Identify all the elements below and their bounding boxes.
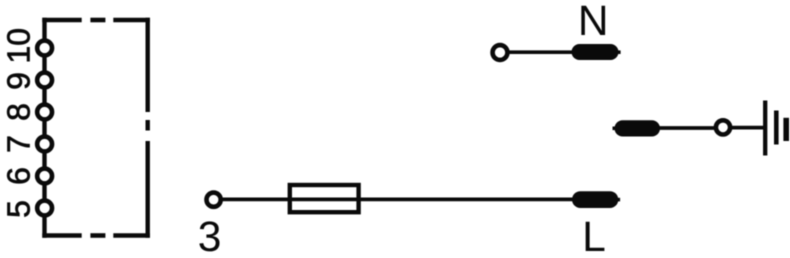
pin number 7 [7,137,29,152]
wire terminal to earth symbol [728,126,765,130]
pin number 6 [7,169,30,184]
wire earth tab to terminal [656,126,718,130]
wire neutral row [503,50,575,54]
earth ground symbol [765,101,786,156]
label 3 [199,221,219,251]
pin number 10 [7,29,30,61]
faston tab N [572,44,621,60]
connector J1 outline right edge (dash-dot) [145,18,149,238]
terminal circle on earth wire [716,120,730,134]
terminal circle on neutral wire [493,45,508,60]
label N [581,6,605,35]
pin number 9 [7,74,30,89]
wire line row from terminal 3 through fuse to L [216,198,575,202]
pin 7 terminal circle [37,137,52,152]
pin 6 terminal circle [37,169,52,184]
pin 9 terminal circle [37,73,52,88]
faston tab L [572,191,620,208]
connector J1 left edge (solid line) [42,18,46,238]
fuse F1 [290,185,359,212]
connector J1 outline bottom edge (dash-dot) [42,233,150,238]
faston tab to earth [613,120,661,136]
pin 8 terminal circle [37,105,52,120]
pin number 5 [7,201,29,216]
pin 10 terminal circle [37,41,52,56]
pin 5 terminal circle [37,201,52,216]
pin number 8 [7,104,30,119]
label L [586,222,605,251]
terminal circle 3 [207,193,221,207]
connector J1 outline top edge (dash-dot) [42,18,150,23]
